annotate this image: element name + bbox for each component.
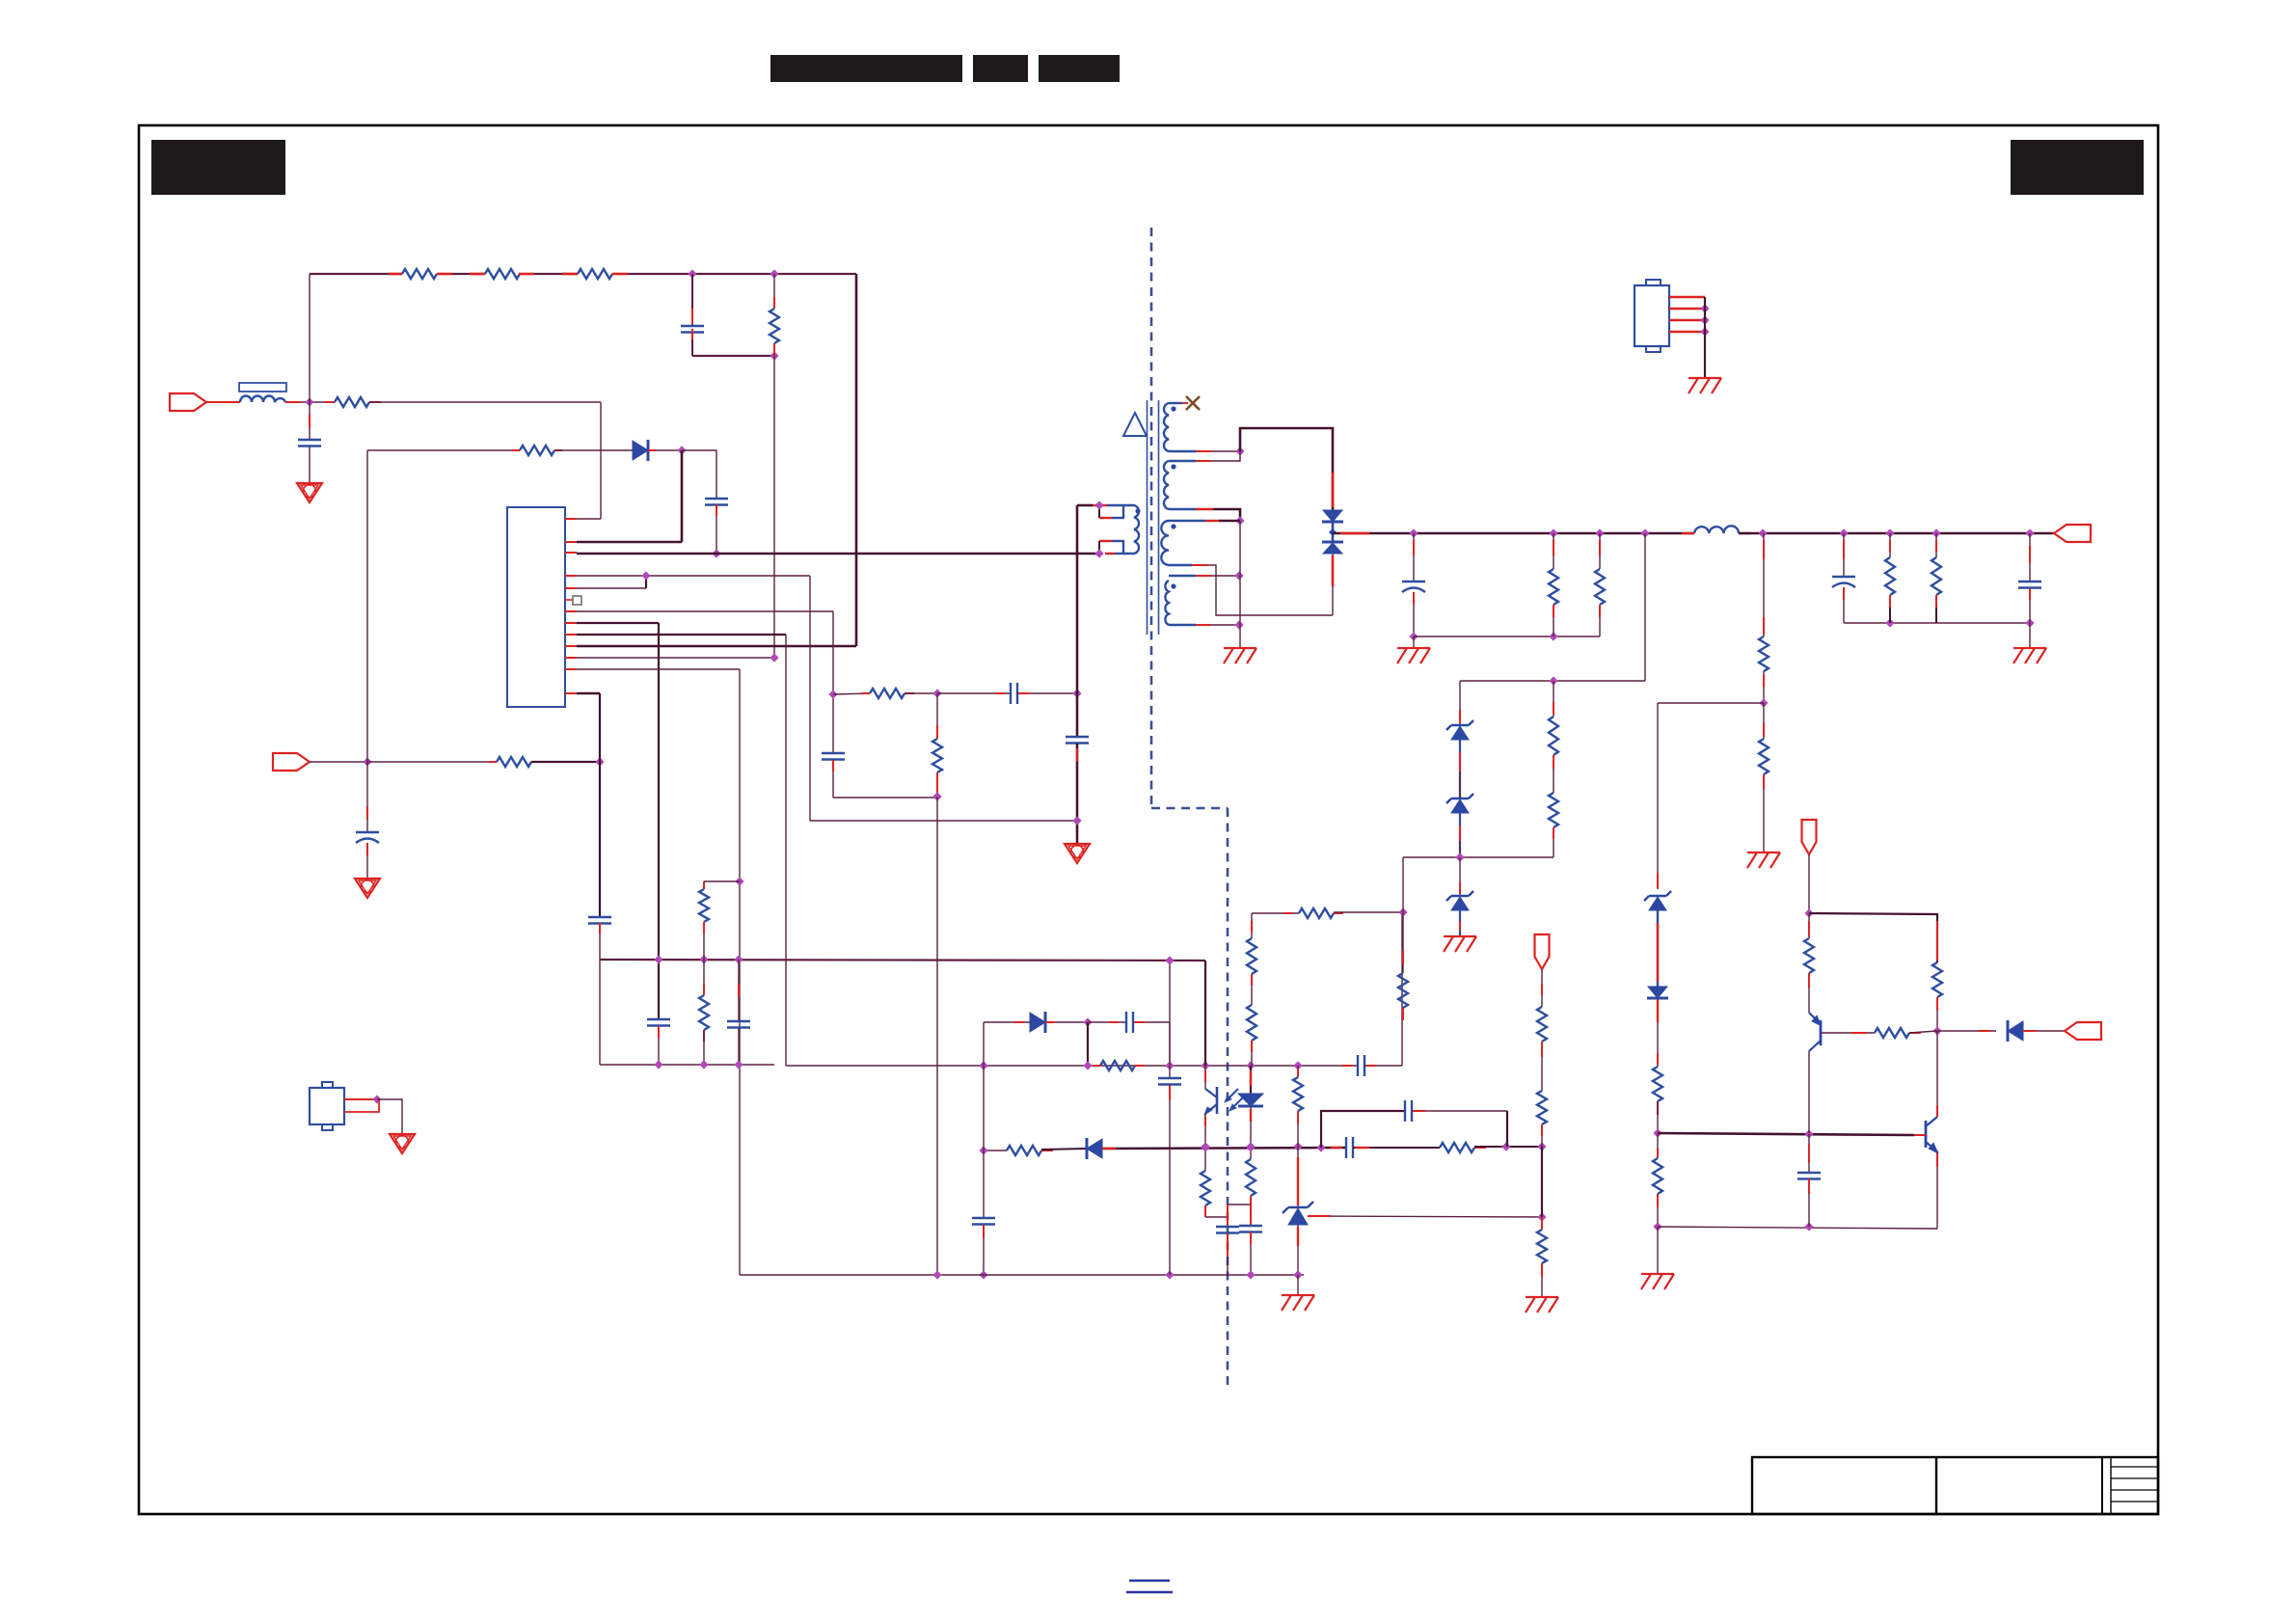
wire — [1087, 1022, 1089, 1066]
resistor R5 (parallel) — [773, 274, 775, 309]
node — [735, 877, 743, 885]
wire y=889 — [1403, 856, 1553, 858]
node — [1885, 618, 1894, 627]
redaction box top-right — [2011, 140, 2144, 195]
capacitor C10 series — [1088, 1021, 1126, 1023]
node — [1246, 1061, 1255, 1069]
node — [1455, 853, 1464, 861]
resistor R27 — [1657, 1053, 1659, 1065]
capacitor C22 — [1158, 1077, 1181, 1079]
wire — [344, 1098, 377, 1100]
title block — [1752, 1457, 2158, 1514]
resistor R31 — [1875, 1028, 1909, 1038]
resistor R13 — [1204, 1147, 1206, 1171]
node junction — [305, 397, 313, 406]
wire pin — [577, 668, 740, 670]
resistor R16 vertical — [1251, 913, 1253, 938]
capacitor C12 — [1216, 1226, 1239, 1228]
top dropper rail — [310, 273, 402, 275]
node — [1293, 1270, 1302, 1279]
wire pin CS — [577, 610, 833, 612]
output inductor L2 — [1694, 526, 1739, 533]
wire — [1401, 912, 1403, 1066]
zener ZD2 — [1446, 794, 1473, 803]
capacitor C8 series — [937, 692, 1011, 694]
wire — [367, 449, 520, 451]
winding2 top lead — [1169, 460, 1196, 462]
node — [1537, 1212, 1546, 1221]
diode D1 — [633, 441, 648, 460]
resistor R24 — [1935, 533, 1937, 557]
winding4 top lead — [1169, 575, 1196, 577]
thick feedback bus y=1190 — [984, 1150, 1007, 1151]
wire — [1808, 854, 1810, 913]
diode D2 — [1030, 1013, 1045, 1032]
revision mark (blue lines) — [1129, 1580, 1170, 1582]
node — [1759, 698, 1768, 707]
wire — [534, 273, 578, 275]
node — [1293, 1142, 1302, 1150]
resistor R36 — [1537, 1091, 1547, 1124]
secondary common bus — [740, 1274, 1304, 1276]
node — [1537, 1142, 1546, 1150]
wire — [1402, 857, 1404, 912]
TL431 ref wire — [1308, 1216, 1542, 1217]
capacitor C18 — [1808, 1134, 1810, 1173]
node — [699, 955, 708, 963]
capacitor C20 series — [1331, 1147, 1342, 1149]
wire — [1205, 1216, 1228, 1218]
T1 primary winding — [1123, 505, 1139, 554]
node — [979, 1270, 987, 1279]
wire — [1045, 1021, 1088, 1023]
wire — [692, 355, 774, 357]
wire bias top — [1252, 912, 1299, 914]
ground — [1282, 1294, 1314, 1296]
wire — [1704, 297, 1706, 378]
wire — [628, 273, 856, 275]
opto emitter wire — [1204, 1113, 1206, 1147]
node — [1235, 516, 1244, 525]
Q2 base lead — [1914, 1134, 1926, 1136]
resistor R18 vertical — [1402, 912, 1404, 973]
node — [1804, 908, 1813, 917]
wire pin — [577, 622, 659, 624]
diode D7 — [1087, 1139, 1102, 1158]
capacitor C9 — [738, 960, 740, 1021]
rectifier top route — [1240, 428, 1333, 510]
node — [1083, 1017, 1092, 1026]
node — [1932, 1026, 1941, 1035]
zener ZD1 — [1459, 681, 1461, 725]
Q1 base wire — [1821, 1032, 1875, 1034]
ground — [390, 1134, 415, 1153]
resistor R4 — [325, 401, 335, 403]
optocoupler light arrows — [1227, 1089, 1238, 1100]
transformer T1 core — [1147, 400, 1148, 635]
node — [1234, 571, 1243, 580]
capacitor C21 series — [1404, 1100, 1406, 1122]
divider x=1213 — [1169, 961, 1171, 1078]
wire — [984, 1021, 1030, 1023]
winding3 top lead — [1169, 520, 1205, 522]
ground — [1224, 647, 1256, 649]
wire pin Vref — [577, 692, 600, 695]
node — [770, 269, 778, 278]
node — [1201, 1061, 1209, 1069]
wire — [785, 635, 787, 1066]
horizontal bus y=1105 left — [600, 1064, 774, 1066]
node — [1246, 1270, 1255, 1279]
node — [932, 1270, 941, 1279]
wire — [704, 880, 740, 882]
resistor R34 vertical — [1297, 1066, 1299, 1077]
node — [654, 955, 662, 963]
bus — [1102, 1148, 1346, 1149]
wire y=1152 branch — [1321, 1111, 1405, 1148]
T1 secondary winding 1 — [1164, 403, 1169, 451]
resistor R25 — [1763, 533, 1765, 636]
controller IC U1 — [507, 507, 565, 707]
ground — [1641, 1273, 1674, 1275]
T1 secondary winding 4 — [1165, 581, 1169, 625]
node — [1804, 1222, 1813, 1231]
resistor R3 — [578, 269, 612, 279]
wire pin gate — [577, 575, 810, 577]
wire pin jog — [577, 587, 646, 589]
wire — [1297, 1275, 1299, 1295]
current sense chain down — [832, 611, 834, 753]
node — [363, 757, 371, 766]
feedback long wire pin3 — [577, 553, 1099, 555]
wire — [1658, 702, 1764, 704]
wire — [1541, 1147, 1543, 1217]
wire — [1657, 703, 1659, 889]
pin stub red marks — [565, 518, 577, 520]
wire x=1020 — [983, 1066, 985, 1150]
connector J1 (AC line in) — [170, 393, 206, 411]
wire to IC drain pin — [577, 645, 856, 648]
node — [1094, 501, 1103, 509]
connector J3 (output) — [2054, 525, 2091, 542]
node — [932, 792, 941, 800]
capacitor C4 — [682, 450, 716, 499]
node — [828, 690, 837, 698]
no-connect X — [1169, 402, 1182, 404]
resistor R23 — [1889, 533, 1891, 557]
transistor Q2 (NPN) — [1925, 1121, 1928, 1148]
Q1 collector wire — [1808, 1051, 1810, 1133]
node — [979, 1061, 987, 1069]
electrolytic C3 — [366, 762, 368, 832]
Q2 emitter down — [1936, 1151, 1938, 1229]
node — [1201, 1142, 1209, 1150]
resistor R9 vertical — [936, 693, 938, 739]
connector J5 — [2065, 1022, 2101, 1040]
node — [770, 653, 778, 662]
output rail — [1333, 532, 1694, 535]
node — [734, 1060, 743, 1069]
wire to zener ladder — [1644, 533, 1646, 681]
node — [2025, 618, 2034, 627]
node — [979, 1146, 987, 1154]
wire — [554, 449, 633, 451]
node — [1549, 676, 1557, 685]
node — [1165, 956, 1174, 964]
node — [1246, 1143, 1255, 1151]
ground — [1526, 1296, 1558, 1298]
node — [1804, 1129, 1813, 1138]
resistor R10 vertical — [703, 881, 705, 889]
node — [1072, 816, 1081, 825]
redaction bar 2 — [973, 55, 1028, 82]
capacitor C2 — [691, 274, 693, 326]
wire — [833, 693, 870, 694]
wire — [2023, 1030, 2065, 1032]
wire — [1250, 1106, 1252, 1159]
diode D6 — [2008, 1021, 2023, 1041]
horizontal bus y=995 — [600, 960, 1205, 961]
node — [1293, 1061, 1302, 1069]
wire — [1041, 1149, 1087, 1150]
wire — [1474, 1146, 1542, 1148]
node — [1094, 549, 1103, 557]
resistor R29 — [1932, 962, 1942, 997]
node — [1234, 620, 1243, 629]
node — [677, 446, 686, 454]
node — [595, 757, 604, 766]
capacitor C6 — [647, 1018, 670, 1020]
capacitor C5 — [822, 752, 845, 754]
wire — [905, 692, 937, 694]
wire — [983, 1022, 985, 1066]
node — [1758, 528, 1767, 537]
resistor R33 — [1440, 1143, 1474, 1152]
resistor R1 — [389, 273, 402, 276]
T1 primary terminal bottom — [1099, 540, 1112, 542]
capacitor C17 — [2029, 533, 2031, 582]
wire — [1169, 1022, 1171, 1066]
ground — [1444, 935, 1476, 937]
node — [1235, 447, 1244, 455]
wire to IC Vcc pin — [681, 450, 684, 542]
node — [699, 1060, 708, 1069]
capacitor C14 — [1066, 736, 1089, 738]
resistor chain x=1599 from connector — [1535, 934, 1550, 969]
resistor R20 vertical — [1549, 793, 1558, 827]
resistor R11 vertical — [703, 960, 705, 995]
winding2 bottom lead — [1169, 508, 1196, 510]
capacitor C1 (X-cap) — [309, 402, 311, 440]
wire — [377, 1099, 402, 1134]
sense divider vertical — [366, 450, 368, 762]
capacitor C19 — [972, 1217, 995, 1219]
wire to top rail — [309, 274, 311, 402]
resistor R17 vertical — [1247, 1005, 1256, 1041]
node — [1653, 1128, 1661, 1137]
node — [1409, 632, 1418, 640]
node — [1549, 528, 1557, 537]
resistor R6 — [367, 761, 489, 763]
wire — [285, 401, 301, 403]
resistor R37 — [1541, 1217, 1543, 1230]
node — [1409, 528, 1418, 537]
transistor Q1 (PNP) — [1820, 1020, 1823, 1045]
wire — [1809, 913, 1937, 962]
node — [1653, 1222, 1661, 1231]
bus y=1105 right piece — [786, 1065, 1358, 1067]
connector pins — [1669, 296, 1705, 298]
capacitor C7 — [588, 916, 611, 918]
wire — [344, 1100, 379, 1112]
wire down to IC pin — [600, 402, 602, 519]
wire — [531, 761, 600, 763]
base bias wire — [1658, 1133, 1914, 1135]
node — [1246, 1142, 1255, 1150]
winding3 bottom lead — [1169, 564, 1192, 566]
cap bridge wire — [1228, 1204, 1251, 1205]
resistor R32 — [1007, 1146, 1041, 1155]
primary snubber vertical — [1076, 505, 1079, 737]
ground — [1065, 844, 1090, 863]
winding4 bottom lead — [1169, 624, 1196, 626]
connector J2 (AC neutral in) — [273, 753, 310, 771]
wire — [310, 761, 367, 763]
redaction box top-left — [151, 140, 285, 195]
node — [654, 1060, 662, 1069]
pin1 indicator square — [565, 599, 573, 601]
node — [1640, 528, 1649, 537]
optocoupler U2 LED — [1250, 1066, 1252, 1094]
electrolytic C16 — [1843, 533, 1845, 577]
connector J7 — [1634, 285, 1669, 346]
ground — [1688, 377, 1721, 379]
output gnd wire — [1414, 636, 1600, 637]
ground — [297, 483, 322, 502]
resistor R14 — [1246, 1159, 1256, 1196]
resistor R26 — [1763, 703, 1765, 739]
node — [1549, 632, 1557, 640]
node — [1201, 1143, 1209, 1151]
sheet frame border — [139, 125, 2158, 1514]
resistor R12 on bus — [1094, 1065, 1100, 1067]
resistor R28 — [1657, 1133, 1659, 1158]
wire — [1937, 1030, 1996, 1032]
wire — [206, 401, 240, 403]
resistor R19 vertical — [1553, 681, 1554, 717]
resistor R2 — [485, 269, 520, 279]
node — [1398, 907, 1407, 916]
optocoupler U2 phototransistor — [1204, 1066, 1206, 1089]
gate drive down — [809, 576, 811, 821]
resistor R22 — [1599, 533, 1601, 569]
center tap to ground — [1239, 521, 1241, 648]
ground — [355, 879, 380, 898]
emitter return wire — [1658, 1227, 1937, 1229]
node — [1316, 1143, 1325, 1151]
rectifier diode D4 — [1332, 532, 1335, 542]
wire — [833, 797, 937, 798]
node — [712, 549, 720, 557]
wire — [648, 449, 682, 451]
node — [1165, 1061, 1174, 1069]
T1 primary terminal top — [1077, 504, 1093, 507]
capacitor C11 series on bus — [1342, 1065, 1352, 1067]
node — [770, 351, 778, 360]
node — [932, 792, 941, 800]
rail after inductor — [1739, 532, 2054, 535]
wire y=706 — [1460, 680, 1645, 682]
isolation barrier dashed line — [1150, 228, 1153, 807]
node — [2025, 528, 2034, 537]
resistor R21 — [1553, 533, 1554, 569]
node — [372, 1095, 381, 1103]
node — [1165, 1270, 1174, 1279]
T1 secondary winding 2 — [1164, 461, 1169, 509]
node — [1072, 816, 1081, 825]
node — [1595, 528, 1604, 537]
node — [1072, 689, 1081, 697]
winding1 bottom lead — [1169, 450, 1196, 452]
wire — [936, 797, 938, 1275]
rectifier diode D3 — [1323, 510, 1342, 522]
Q2 collector — [1936, 1031, 1938, 1117]
redaction bar 1 (title text) — [770, 55, 962, 82]
wire — [1204, 961, 1206, 1066]
zener ZD4 — [1644, 891, 1671, 901]
warning triangle symbol — [1123, 413, 1147, 436]
ground — [2013, 647, 2046, 649]
node — [932, 689, 941, 697]
resistor R35 — [1537, 1007, 1547, 1042]
connector J6 (jumper) — [310, 1088, 344, 1124]
node — [641, 571, 650, 580]
wire pin — [577, 657, 774, 659]
node — [1839, 528, 1848, 537]
resistor R8 — [862, 692, 870, 694]
wire pin long — [577, 634, 786, 636]
connector J4 (control in) — [1802, 820, 1817, 854]
node — [1329, 528, 1337, 536]
capacitor C13 — [1239, 1225, 1262, 1227]
redaction bar 3 — [1039, 55, 1120, 82]
electrolytic C15 — [1413, 533, 1415, 582]
node — [1885, 528, 1894, 537]
node — [1083, 1061, 1092, 1069]
node — [1931, 528, 1940, 537]
resistor R15 — [1299, 908, 1334, 918]
ground — [1747, 852, 1780, 853]
wire — [452, 273, 485, 275]
zener ZD3 — [1459, 857, 1461, 896]
diode D5 — [1648, 987, 1667, 998]
node — [734, 955, 743, 963]
node — [1293, 1270, 1302, 1279]
resistor R30 — [1808, 913, 1810, 938]
node — [688, 269, 696, 278]
wire — [369, 401, 601, 403]
TL431 U3 — [1297, 1147, 1299, 1208]
resistor R7 — [512, 449, 520, 451]
second filter gnd wire — [1844, 622, 2030, 624]
node — [979, 1061, 987, 1069]
wire — [1334, 911, 1403, 913]
wire snubber feed — [773, 356, 775, 658]
node — [1501, 1142, 1510, 1150]
wire — [810, 820, 1077, 822]
node — [1455, 853, 1464, 861]
T1 secondary winding 3 — [1161, 521, 1169, 565]
